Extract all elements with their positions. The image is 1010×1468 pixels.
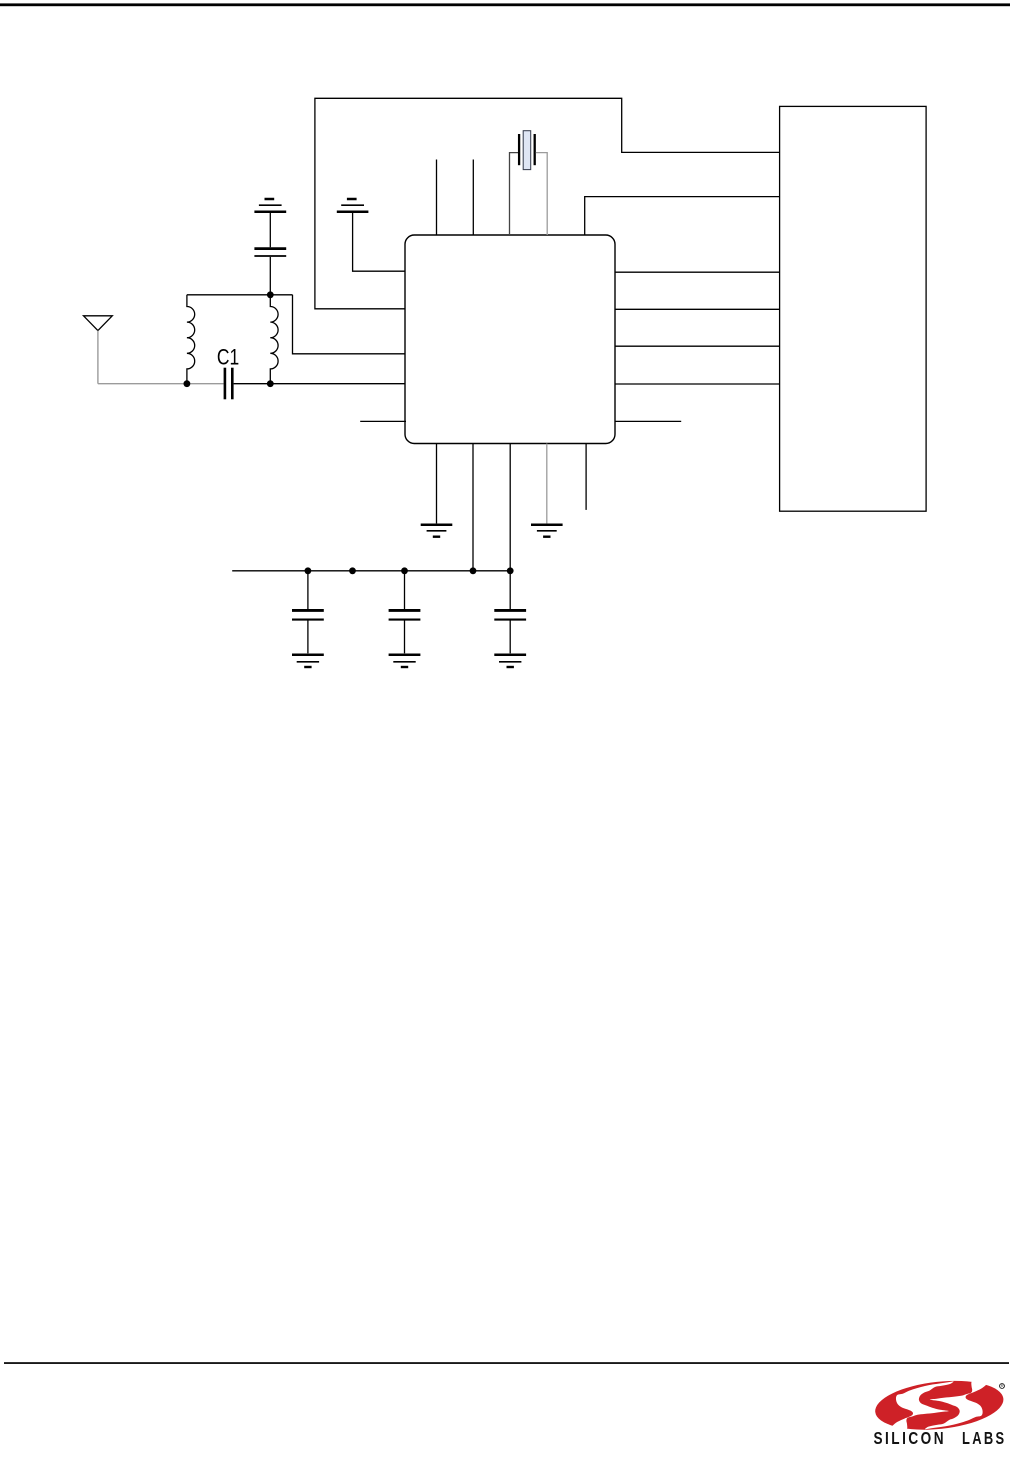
wire host routing box (top-left loop) [315,98,780,308]
wire IC to host 3 [615,345,780,347]
capacitor C3 (bypass) [292,571,324,654]
capacitor C5 (bypass) [494,571,526,654]
wire IC top pin 2 [472,160,474,236]
inductor L1 [187,295,195,384]
wire IC left stub [360,420,406,422]
wire IC bottom pin 3 to bus [509,444,511,571]
antenna ANT [84,316,113,331]
wire IC bottom pin 1 to ground [436,444,438,524]
node bus dot 2 [349,567,356,574]
wire IC bottom pin 2 to bus [472,444,474,571]
svg-text:SILICON: SILICON [874,1428,947,1448]
svg-text:LABS: LABS [962,1428,1007,1448]
node junction dot RF right [267,380,274,387]
node bus dot 5 [507,567,514,574]
node junction dot inductor top [267,291,274,298]
capacitor C4 (bypass) [389,571,421,654]
ground (below C5) [494,655,526,667]
ground (top, above C2) [254,199,286,212]
ground (below IC right) [531,525,563,537]
ground (below C3) [292,655,324,667]
wire supply bus [232,570,510,572]
wire antenna to C1 (gray) [98,383,224,385]
wire IC to host 2 [615,308,780,310]
svg-text:C1: C1 [217,345,239,370]
wire IC top pin 1 [436,160,438,236]
ground (below C4) [389,655,421,667]
wire IC right stub [615,420,681,422]
capacitor C2 (shunt at inductor top) [254,213,286,295]
ground (top, IC pin) [337,199,369,212]
IC U1 (transceiver) [405,235,615,444]
ground (below IC left) [421,525,453,537]
host MCU box [780,106,927,511]
node junction dot RF left [184,380,191,387]
header rule [0,3,1010,6]
node bus dot 3 [401,567,408,574]
node bus dot 1 [305,567,312,574]
Silicon Labs logo [873,1375,1007,1448]
node bus dot 4 [470,567,477,574]
wire C1 to IC [234,383,406,385]
wire IC bottom pin 4 to ground (gray) [546,444,548,524]
wire step to IC pin [293,295,407,354]
wire IC to host 4 [615,383,780,385]
wire IC bottom stub [585,444,587,510]
crystal X1 [510,131,548,235]
wire antenna stem [97,331,99,384]
inductor L2 [270,295,278,384]
wire inductor tops [187,294,293,296]
wire IC to host 1 [615,271,780,273]
wire host to IC top [585,197,780,235]
footer rule [4,1362,1009,1364]
wire top ground to IC [353,213,406,271]
capacitor C1 [225,368,232,400]
